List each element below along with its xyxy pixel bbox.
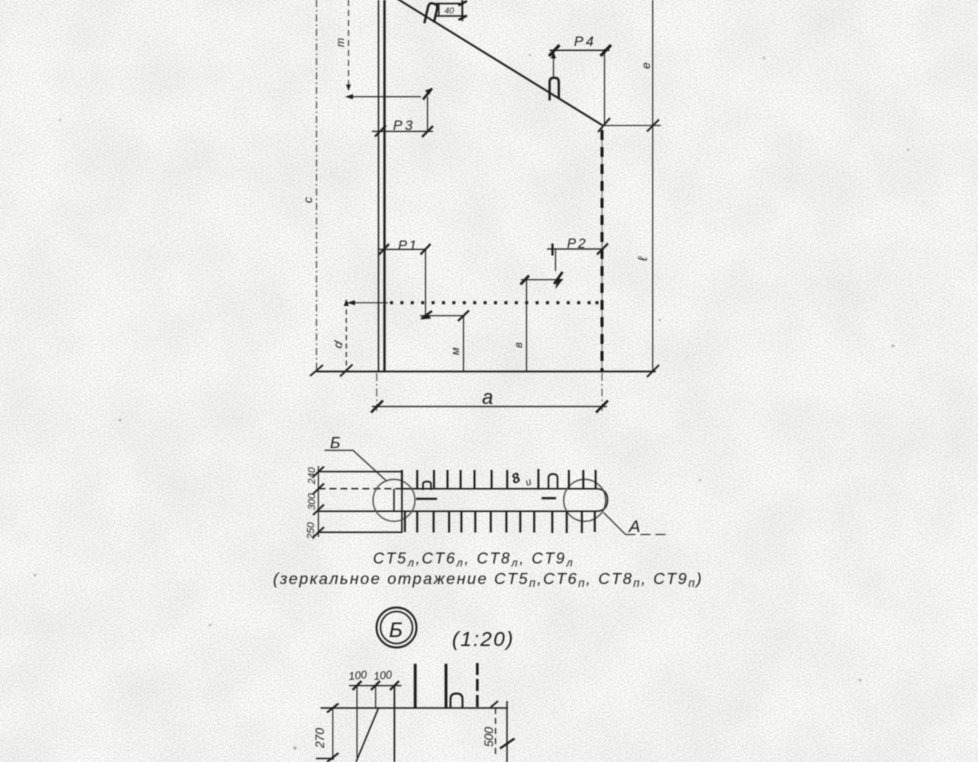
- svg-text:в: в: [513, 342, 525, 348]
- dimension P4: line, ticks, label: [550, 49, 610, 51]
- lifting loop 2 on diagonal: [550, 78, 559, 101]
- slash tick bottom: [647, 365, 659, 377]
- bar top edge solid: [402, 488, 596, 490]
- tick at top of 500 line: [491, 701, 499, 708]
- dimension a (bottom): [376, 373, 378, 411]
- head block top edge: [318, 471, 402, 473]
- slash tick at corner level: [647, 120, 659, 132]
- svg-text:CT5л,CT6л, CT8л, CT9л: CT5л,CT6л, CT8л, CT9л: [373, 551, 574, 570]
- arrow bottom of m: [346, 85, 351, 92]
- detail circle B: [377, 608, 417, 648]
- leader A with label: [604, 513, 626, 535]
- bottom mark of 270: [316, 758, 334, 760]
- svg-text:м: м: [450, 347, 462, 355]
- detail diagonal: [356, 709, 378, 762]
- head block right edge: [401, 472, 403, 533]
- svg-text:270: 270: [313, 728, 327, 749]
- dimension d (dashed vertical): [345, 301, 347, 372]
- svg-text:A: A: [628, 517, 640, 536]
- right edge (heavy dashed): [601, 125, 603, 371]
- callout circle A (right): [564, 479, 606, 521]
- P3 lower dim line: [372, 130, 433, 132]
- P3 group: upper line with bold arrow: [349, 96, 422, 98]
- bar inner end line: [393, 489, 395, 512]
- svg-text:240: 240: [307, 467, 318, 485]
- loop on bar (right, in plan): [549, 474, 558, 489]
- bar top edge hidden (dashed): [318, 488, 402, 490]
- right extension line of detail: [506, 701, 508, 762]
- small loop on bar (left): [423, 482, 431, 491]
- lower transverse ticks: [405, 511, 595, 533]
- svg-text:c: c: [301, 197, 315, 203]
- head block bottom edge: [318, 531, 402, 533]
- dimension 270: [332, 708, 334, 760]
- svg-text:m: m: [335, 38, 347, 47]
- slash tick at corner (on ext): [598, 118, 610, 132]
- svg-text:40: 40: [445, 6, 455, 16]
- detail top line: [321, 707, 508, 709]
- svg-text:a: a: [482, 387, 493, 409]
- bar right rounded cap: [596, 489, 608, 512]
- svg-text:e: e: [639, 62, 653, 69]
- svg-text:(1:20): (1:20): [452, 628, 515, 651]
- svg-text:100: 100: [373, 669, 393, 683]
- dotted rebar line: [390, 301, 599, 304]
- corner extension line at y=125.5: [602, 125, 661, 127]
- P3 tick right: [422, 126, 433, 137]
- P3 slash tick left: [375, 126, 386, 137]
- leader B with label: [325, 450, 388, 481]
- bottom edge: [317, 371, 656, 373]
- detail rebar verticals: [414, 664, 417, 708]
- plan dimension stack line: [317, 466, 319, 537]
- left edge double line: [378, 0, 380, 372]
- callout circle B (left): [373, 479, 415, 521]
- dimension line m (dashed vertical): [348, 0, 350, 88]
- svg-text:100: 100: [348, 669, 368, 683]
- svg-text:P1: P1: [398, 238, 419, 253]
- P4 leader vertical to loop: [553, 50, 555, 77]
- extension verticals of 100-dims: [356, 686, 358, 758]
- tick at bottom of c: [310, 365, 323, 376]
- svg-text:P3: P3: [393, 117, 415, 133]
- svg-text:P4: P4: [574, 33, 596, 49]
- svg-text:500: 500: [482, 727, 496, 747]
- svg-text:Б: Б: [389, 619, 403, 642]
- upper transverse ticks: [402, 469, 596, 489]
- detail loop: [451, 694, 463, 709]
- dimension 500 (dashed): [495, 708, 497, 757]
- small top dimension ticks and line: [438, 4, 440, 16]
- svg-text:250: 250: [306, 522, 317, 540]
- thin lead-in of dotted line: [346, 302, 388, 304]
- bar bottom edge: [318, 510, 596, 512]
- weld dashes inside bar: [416, 498, 437, 500]
- stack slash ticks: [313, 467, 324, 478]
- svg-text:Б: Б: [330, 435, 340, 452]
- extension from corner up to P4 line: [604, 49, 606, 125]
- svg-text:300: 300: [307, 493, 318, 510]
- lifting loop 1 on diagonal (top): [424, 3, 438, 26]
- dimension line e/l (right vertical): [652, 0, 654, 372]
- top diagonal edge: [396, 0, 603, 125]
- P3 vertical: [427, 97, 429, 132]
- dimension line c (dash-dot vertical): [316, 0, 318, 372]
